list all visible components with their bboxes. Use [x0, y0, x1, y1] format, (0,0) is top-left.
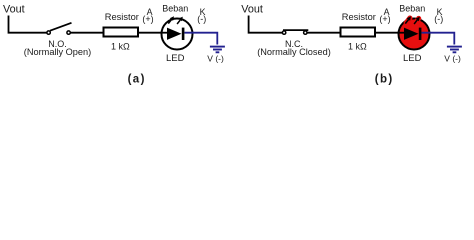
LED D2 body (lit red)	[399, 19, 430, 50]
svg-text:V (-): V (-)	[444, 54, 461, 64]
LED D1 triangle	[167, 28, 182, 40]
svg-text:(Normally Closed): (Normally Closed)	[257, 47, 331, 57]
LED D2 anode wire inside	[399, 32, 405, 34]
wire resistor to LED (b)	[376, 32, 405, 34]
switch S2 left contact	[282, 31, 285, 34]
wire switch to resistor (a)	[70, 32, 103, 34]
LED D1 emission arrow 2	[177, 17, 183, 24]
svg-text:LED: LED	[403, 53, 422, 64]
wire resistor to LED (a)	[139, 32, 168, 34]
LED D2 cathode bar	[419, 28, 422, 40]
resistor R2	[341, 28, 376, 37]
wire LED cathode to ground (a)	[185, 33, 218, 45]
switch S2 N.C. lever	[283, 29, 308, 31]
svg-text:Beban: Beban	[399, 4, 425, 14]
wire Vout to switch (a)	[9, 16, 47, 33]
wire switch to resistor (b)	[307, 32, 340, 34]
LED D1 body	[162, 19, 193, 50]
svg-text:1 kΩ: 1 kΩ	[348, 42, 367, 52]
switch S1 N.O. lever	[50, 23, 72, 31]
svg-text:(a): (a)	[128, 74, 146, 86]
svg-text:(+): (+)	[142, 14, 153, 24]
svg-text:LED: LED	[166, 53, 185, 64]
svg-text:(+): (+)	[379, 14, 390, 24]
LED D2 arrow red glow	[406, 18, 419, 23]
switch S1 right contact	[67, 31, 70, 34]
svg-text:(-): (-)	[197, 14, 206, 24]
svg-text:1 kΩ: 1 kΩ	[111, 42, 130, 52]
svg-text:Vout: Vout	[3, 4, 25, 16]
svg-text:Vout: Vout	[241, 4, 263, 16]
resistor R1	[104, 28, 139, 37]
ground symbol (a)	[210, 47, 225, 53]
LED D2 emission arrow 2	[414, 17, 420, 24]
svg-text:Resistor: Resistor	[105, 12, 139, 22]
svg-text:Resistor: Resistor	[342, 12, 376, 22]
svg-text:V (-): V (-)	[207, 54, 224, 64]
svg-text:(Normally Open): (Normally Open)	[24, 47, 91, 57]
LED D2 emission arrow 1	[405, 16, 411, 23]
svg-text:Beban: Beban	[162, 4, 188, 14]
switch S1 left contact	[47, 31, 50, 34]
svg-text:(-): (-)	[434, 14, 443, 24]
wire Vout to switch (b)	[249, 16, 283, 33]
LED D1 anode wire inside	[162, 32, 168, 34]
wire LED cathode to ground (b)	[422, 33, 455, 45]
LED D2 triangle	[404, 28, 419, 40]
LED D1 cathode bar	[182, 28, 185, 40]
switch S2 right contact	[304, 31, 307, 34]
LED D1 emission arrow 1	[168, 16, 174, 23]
ground symbol (b)	[447, 47, 462, 53]
svg-text:(b): (b)	[375, 74, 394, 86]
